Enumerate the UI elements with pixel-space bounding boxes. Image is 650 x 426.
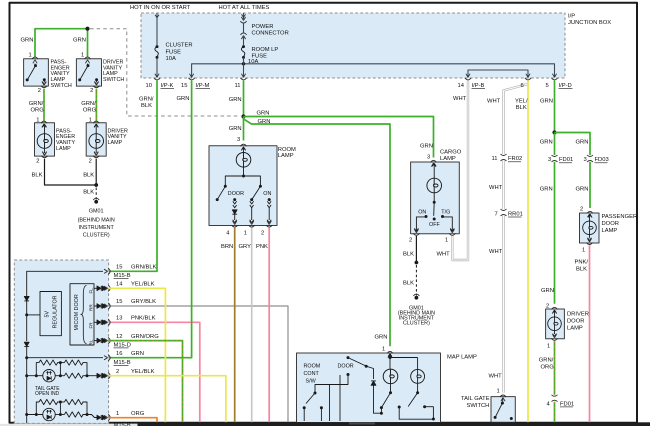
wire BRN room lamp pin 4 down <box>234 228 236 422</box>
svg-text:RL: RL <box>89 339 94 345</box>
wire: cluster fuse to pin 10 <box>156 57 158 77</box>
svg-text:1: 1 <box>382 347 385 353</box>
svg-text:GRN: GRN <box>229 126 242 132</box>
svg-text:15: 15 <box>116 299 122 305</box>
connector FD01 pin 4 <box>547 395 575 407</box>
svg-text:I/P-M: I/P-M <box>196 83 210 89</box>
svg-text:SWITCH: SWITCH <box>51 83 72 89</box>
svg-text:DOOR: DOOR <box>567 318 584 324</box>
wire: cluster fuse feed <box>156 13 158 45</box>
svg-text:WHT: WHT <box>453 96 467 102</box>
svg-text:2: 2 <box>36 159 39 165</box>
wire GRN/ORG driver door lamp pin 1 down <box>554 341 556 395</box>
svg-text:1: 1 <box>244 230 247 236</box>
wire PNK/BLK passenger door lamp pin 1 down <box>589 245 591 422</box>
pin 15 I/P-M <box>181 74 210 89</box>
pin 5 I/P-D <box>546 74 573 89</box>
svg-text:3: 3 <box>237 137 240 143</box>
svg-text:GRN: GRN <box>73 38 86 44</box>
control module box (micom) dashed <box>14 260 108 423</box>
wire GRN junction to map lamp <box>244 119 390 346</box>
svg-text:GRN: GRN <box>229 97 242 103</box>
svg-text:3: 3 <box>548 157 551 163</box>
svg-text:CONT: CONT <box>304 371 320 377</box>
connector FD01 pin 3 <box>548 155 573 163</box>
wire BLK pass lamp ground run <box>45 159 97 185</box>
wire GRN FD01 to driver door lamp <box>554 162 556 304</box>
svg-text:BLK: BLK <box>516 105 527 111</box>
svg-text:DOOR: DOOR <box>602 221 619 227</box>
svg-text:2: 2 <box>546 303 549 309</box>
svg-text:2: 2 <box>261 230 264 236</box>
wire GRN junction to room lamp pin 3 <box>243 117 245 141</box>
wire GRN vanity feed: pass switch pin1 up and over to junction <box>35 29 88 57</box>
lamp assembly DRIVER DOOR LAMP <box>546 303 589 349</box>
svg-text:12: 12 <box>116 334 122 340</box>
wire GRN pin15 to micom pin 16 <box>109 81 192 358</box>
svg-text:14: 14 <box>116 282 123 288</box>
svg-text:13: 13 <box>116 316 122 322</box>
svg-text:YEL/BLK: YEL/BLK <box>131 282 155 288</box>
wire GRN pin 5 down to junction <box>554 81 556 133</box>
svg-text:10: 10 <box>146 83 152 89</box>
wire PNK room lamp pin 2 down <box>268 228 270 422</box>
lamp assembly MAP LAMP with ROOM CONT S/W <box>297 334 477 422</box>
wire micom row 13 <box>94 321 97 323</box>
pin 14 I/P-B <box>458 74 486 89</box>
svg-text:HOT IN ON OR START: HOT IN ON OR START <box>130 5 191 11</box>
svg-text:1: 1 <box>582 247 585 253</box>
wire: power connector to room fuse <box>243 37 245 45</box>
pin 6 <box>521 74 532 89</box>
lamp L2 DRIVER VANITY LAMP <box>86 117 128 164</box>
svg-text:REGULATOR: REGULATOR <box>53 295 59 328</box>
junction node regulator tap <box>25 313 28 316</box>
svg-text:PNK: PNK <box>256 244 268 250</box>
svg-text:5V: 5V <box>45 311 51 318</box>
svg-text:14: 14 <box>458 83 465 89</box>
diode pair row 14 <box>97 286 106 291</box>
ground GM01 (behind main instrument cluster) <box>78 198 115 238</box>
connector POWER CONNECTOR <box>240 17 288 39</box>
svg-text:5: 5 <box>546 83 549 89</box>
svg-text:GRY: GRY <box>239 244 252 250</box>
diode pair row 12 <box>97 338 106 343</box>
svg-text:I/P-B: I/P-B <box>472 83 485 89</box>
wire: tap to 5V regulator <box>27 314 40 316</box>
wire GRN/ORG micom pin 12 down <box>109 341 183 423</box>
wire GRN/ORG pass switch to pass vanity lamp <box>43 89 45 122</box>
wire: internal supply rail <box>27 271 103 296</box>
scrollbar thumb <box>349 422 375 424</box>
micom pin 13 PNK/BLK <box>104 316 156 326</box>
junction node door lamp feed <box>552 130 556 134</box>
diode D2 on rail <box>24 342 29 346</box>
svg-text:YEL/BLK: YEL/BLK <box>131 369 155 375</box>
wire: jumper pins 14 to 6 <box>468 70 528 77</box>
component 5V REGULATOR <box>40 292 61 336</box>
svg-text:M15-B: M15-B <box>114 422 131 426</box>
svg-text:BLK: BLK <box>141 103 152 109</box>
indicator circuit 2 (lower LED) <box>25 399 106 420</box>
svg-text:11: 11 <box>492 156 498 162</box>
svg-text:3: 3 <box>584 157 587 163</box>
svg-text:GRN/: GRN/ <box>81 101 96 107</box>
micom pin 15 GRN/BLK <box>104 265 157 279</box>
diode pair row 13 <box>97 320 106 325</box>
svg-text:HOT AT ALL TIMES: HOT AT ALL TIMES <box>219 5 270 11</box>
svg-text:M15-B: M15-B <box>114 360 131 366</box>
svg-text:LAMP: LAMP <box>108 140 123 146</box>
svg-text:BLK: BLK <box>576 266 587 272</box>
svg-text:OFF: OFF <box>429 222 440 228</box>
svg-text:SWITCH: SWITCH <box>103 77 124 83</box>
svg-text:FR: FR <box>89 322 94 329</box>
wire GRN FD03 to passenger door lamp <box>589 162 591 208</box>
svg-text:BLK: BLK <box>32 173 43 179</box>
micom pin 16 GRN <box>104 351 144 366</box>
wire micom row 15b <box>94 305 97 307</box>
svg-text:15: 15 <box>181 83 187 89</box>
wire GRN junction to cargo lamp <box>244 117 434 158</box>
svg-text:ROOM: ROOM <box>304 364 321 370</box>
junction node room lamp feed <box>241 114 245 118</box>
svg-text:GM01: GM01 <box>89 208 104 214</box>
indicator circuit TAIL GATE OPEN IND <box>25 360 106 397</box>
junction node vanity feed <box>85 27 89 31</box>
wire YEL/BLK pin 6 down <box>527 81 529 423</box>
svg-text:GRN/ORG: GRN/ORG <box>131 334 159 340</box>
switch S2 DRIVER VANITY LAMP SWITCH <box>76 52 124 93</box>
svg-text:3: 3 <box>427 154 430 160</box>
svg-text:GRN: GRN <box>420 144 433 150</box>
svg-text:6: 6 <box>521 83 524 89</box>
connector RR01 pin 7 <box>495 209 523 217</box>
ground GM01 (cargo, behind main instrument cluster) <box>398 294 435 327</box>
svg-text:ORG: ORG <box>541 364 555 370</box>
wire BLK dashed to ground GM01 <box>415 265 417 296</box>
wire BLK dashed to ground <box>95 188 97 200</box>
svg-text:LAMP: LAMP <box>602 228 618 234</box>
svg-text:1: 1 <box>445 238 448 244</box>
svg-text:BLK: BLK <box>83 173 94 179</box>
svg-text:DOOR: DOOR <box>228 191 244 197</box>
lamp assembly ROOM LAMP <box>209 137 296 237</box>
svg-text:WHT: WHT <box>489 373 503 379</box>
svg-text:CLUSTER): CLUSTER) <box>83 232 110 238</box>
svg-text:ON: ON <box>263 191 271 197</box>
svg-text:15: 15 <box>116 265 122 271</box>
svg-text:FL: FL <box>89 288 94 294</box>
svg-text:CLUSTER): CLUSTER) <box>403 321 430 327</box>
junction node BLK <box>94 183 98 187</box>
wire GRN/ORG driver switch to driver vanity lamp <box>95 89 97 122</box>
svg-text:GRN: GRN <box>540 99 553 105</box>
svg-text:MICOM DOOR: MICOM DOOR <box>74 294 80 330</box>
micom pin 14 YEL/BLK <box>104 282 155 292</box>
svg-text:1: 1 <box>547 343 550 349</box>
svg-text:ORG: ORG <box>83 107 97 113</box>
svg-text:10A: 10A <box>166 56 176 62</box>
svg-text:2: 2 <box>38 88 41 94</box>
svg-text:OPEN IND: OPEN IND <box>35 391 60 397</box>
svg-text:GRN/: GRN/ <box>139 97 154 103</box>
svg-text:DOOR: DOOR <box>338 364 354 370</box>
svg-text:2: 2 <box>89 159 92 165</box>
switch S1 PASSENGER VANITY LAMP SWITCH <box>24 52 72 93</box>
svg-text:ROOM: ROOM <box>278 147 296 153</box>
svg-text:LAMP: LAMP <box>440 156 456 162</box>
wire GRY/BLK micom pin 15 down <box>109 306 288 422</box>
svg-text:1: 1 <box>116 411 119 417</box>
micom pin 15 GRY/BLK <box>104 299 156 309</box>
svg-text:GRN: GRN <box>21 38 34 44</box>
svg-text:I/P: I/P <box>568 14 575 20</box>
wire WHT cargo lamp pin 1 to I/P pin 14 <box>452 81 468 261</box>
svg-text:CONNECTOR: CONNECTOR <box>252 30 289 36</box>
svg-text:ON: ON <box>418 210 426 216</box>
wire YEL/BLK micom pin 14 down <box>109 288 166 422</box>
svg-text:INSTRUMENT: INSTRUMENT <box>79 225 115 231</box>
svg-text:ROOM LP: ROOM LP <box>252 47 279 53</box>
svg-text:11: 11 <box>235 83 241 89</box>
svg-text:1: 1 <box>497 389 500 395</box>
svg-text:2: 2 <box>116 369 119 375</box>
svg-text:WHT: WHT <box>489 249 503 255</box>
wire: power connector feed <box>243 13 245 19</box>
diode pair row 15b <box>97 304 106 309</box>
svg-text:FD01: FD01 <box>560 401 574 407</box>
svg-text:GRN: GRN <box>257 110 270 116</box>
svg-text:GRY/BLK: GRY/BLK <box>131 299 156 305</box>
svg-text:1: 1 <box>29 52 32 58</box>
svg-text:MAP LAMP: MAP LAMP <box>447 355 477 361</box>
wire: bus to pin 11 <box>243 57 245 77</box>
wire GRN: driver switch pin1 riser <box>87 29 89 57</box>
switch TAIL GATE SWITCH <box>461 389 515 423</box>
wire: room fuse output bus <box>192 64 555 77</box>
wire micom row 14 <box>94 287 97 289</box>
wire GRN pin11 to junction <box>243 81 245 117</box>
svg-text:FR02: FR02 <box>508 156 522 162</box>
svg-text:GRN/: GRN/ <box>539 357 554 363</box>
wire WHT pin 6 to tail gate switch <box>504 84 529 393</box>
svg-text:GRN: GRN <box>131 351 144 357</box>
fuse ROOM LP FUSE 10A <box>241 45 278 65</box>
wire PNK/BLK micom pin 13 down <box>109 322 200 422</box>
svg-text:WHT: WHT <box>489 185 503 191</box>
wire GRN/BLK pin10 to micom pin 15 <box>109 81 157 272</box>
wire micom row 12 <box>94 340 97 342</box>
lamp assembly PASSENGER DOOR LAMP <box>580 207 638 254</box>
micom pin 12 GRN/ORG <box>104 334 159 349</box>
svg-text:GRN/BLK: GRN/BLK <box>131 265 157 271</box>
svg-text:POWER: POWER <box>252 24 274 30</box>
svg-text:FD01: FD01 <box>559 157 573 163</box>
wire: rail diode to regulator tap <box>26 301 28 341</box>
svg-text:PNK/BLK: PNK/BLK <box>131 316 156 322</box>
wire: rail to micom pin 16 row <box>27 357 103 359</box>
svg-text:PASSENGER: PASSENGER <box>602 214 638 220</box>
wire BLK cargo lamp pin 2 <box>415 236 417 263</box>
wire GRN to FD01 <box>554 133 556 156</box>
wire GRY room lamp pin 1 down <box>251 228 253 422</box>
svg-text:CARGO: CARGO <box>440 150 462 156</box>
svg-text:BLK: BLK <box>83 190 94 196</box>
svg-text:GRN: GRN <box>540 139 553 145</box>
svg-text:T/G: T/G <box>441 210 450 216</box>
micom pin 1 ORG <box>104 411 145 421</box>
svg-text:2: 2 <box>580 207 583 213</box>
junction node BLK cargo <box>415 261 419 265</box>
svg-text:FUSE: FUSE <box>166 49 182 55</box>
svg-text:LAMP: LAMP <box>56 146 71 152</box>
svg-text:CLUSTER: CLUSTER <box>166 43 193 49</box>
svg-text:WHT: WHT <box>487 99 501 105</box>
wire GRN branch to passenger door lamp column <box>555 133 591 156</box>
wire YEL/BLK micom pin 2 down <box>109 376 226 423</box>
svg-text:(BEHIND MAIN: (BEHIND MAIN <box>78 218 115 224</box>
pin 10 I/P-K <box>146 74 175 89</box>
svg-text:BRN: BRN <box>221 244 233 250</box>
svg-text:BLK: BLK <box>403 252 414 258</box>
svg-text:GRN/: GRN/ <box>29 101 44 107</box>
svg-text:I/P-K: I/P-K <box>161 83 174 89</box>
junction node on bus at fuse <box>242 62 245 65</box>
svg-text:SWITCH: SWITCH <box>467 403 490 409</box>
fuse CLUSTER FUSE 10A <box>155 43 193 63</box>
svg-text:GRN: GRN <box>576 186 589 192</box>
wire BLK driver lamp ground run <box>95 159 97 185</box>
svg-text:TAIL GATE: TAIL GATE <box>461 396 490 402</box>
diode D1 on rail <box>24 297 29 301</box>
connector FD03 pin 3 <box>584 155 609 163</box>
wire: rail lower segment <box>26 347 28 423</box>
wire: dashed continuation to room lamp junction <box>90 29 241 116</box>
svg-text:JUNCTION BOX: JUNCTION BOX <box>568 20 611 26</box>
svg-text:1: 1 <box>81 52 84 58</box>
wire GRN/ORG below FD01 <box>554 402 556 423</box>
svg-text:16: 16 <box>116 351 122 357</box>
svg-text:GRN: GRN <box>576 139 589 145</box>
bottom toolbar bar <box>138 422 650 426</box>
I/P junction box U-IP <box>141 13 611 78</box>
svg-text:FD03: FD03 <box>595 157 609 163</box>
svg-text:DRIVER: DRIVER <box>567 311 589 317</box>
svg-text:2: 2 <box>90 88 93 94</box>
svg-text:I/P-D: I/P-D <box>559 83 572 89</box>
svg-text:ORG: ORG <box>31 107 45 113</box>
bottom-left status strip <box>0 424 138 426</box>
svg-text:YEL/: YEL/ <box>515 99 528 105</box>
svg-text:2: 2 <box>409 238 412 244</box>
svg-text:RR01: RR01 <box>508 211 523 217</box>
svg-text:7: 7 <box>495 211 498 217</box>
svg-text:S/W: S/W <box>306 378 317 384</box>
junction node rail to GRN row <box>25 356 28 359</box>
svg-text:GRN: GRN <box>258 119 271 125</box>
svg-text:GRN: GRN <box>541 288 554 294</box>
svg-text:WHT: WHT <box>437 252 451 258</box>
svg-text:BLK: BLK <box>403 280 414 286</box>
svg-text:GRN: GRN <box>375 334 388 340</box>
svg-text:LAMP: LAMP <box>567 325 583 331</box>
svg-text:GRN: GRN <box>177 96 190 102</box>
svg-text:M15-D: M15-D <box>114 342 131 348</box>
svg-text:PNK/: PNK/ <box>575 259 589 265</box>
lamp L1 PASSENGER VANITY LAMP <box>35 117 76 164</box>
lamp assembly CARGO LAMP <box>409 144 462 244</box>
svg-text:M15-B: M15-B <box>114 273 131 279</box>
svg-text:LAMP: LAMP <box>278 153 294 159</box>
svg-text:ORG: ORG <box>131 411 145 417</box>
pin 11 <box>235 74 247 89</box>
svg-text:GRN: GRN <box>540 186 553 192</box>
connector FR02 pin 11 <box>492 154 523 162</box>
wire ORG micom pin 1 down <box>109 418 157 423</box>
micom pin 2 YEL/BLK <box>104 369 155 379</box>
svg-text:RR: RR <box>89 304 94 311</box>
component MICOM DOOR <box>70 284 94 346</box>
